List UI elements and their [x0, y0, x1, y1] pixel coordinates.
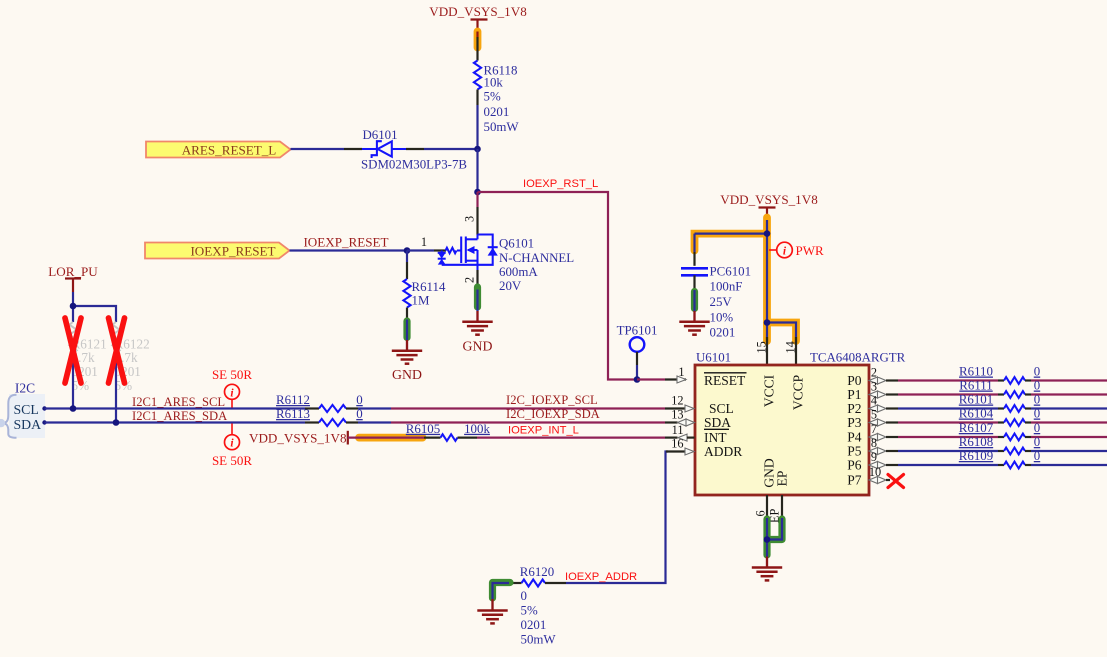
resistor R6109 [959, 449, 1040, 468]
wire IOEXP_ADDR [566, 452, 686, 584]
wire [290, 249, 408, 251]
svg-text:i: i [230, 387, 234, 399]
wire [898, 379, 998, 381]
svg-text:U6101: U6101 [696, 351, 731, 365]
pin 3 P1 [847, 380, 898, 403]
pin 1 RESET [677, 365, 747, 388]
wire (pullup top) [73, 292, 116, 322]
svg-text:2: 2 [463, 277, 477, 283]
pin 10 P7 [847, 465, 890, 488]
svg-text:RESET: RESET [704, 373, 746, 388]
svg-text:TCA6408ARGTR: TCA6408ARGTR [810, 351, 906, 365]
wire [898, 407, 998, 409]
svg-text:R6111: R6111 [959, 379, 992, 393]
svg-text:0201: 0201 [521, 618, 547, 632]
pin 11 INT [672, 423, 728, 445]
wire [1031, 436, 1107, 438]
pin 12 SCL [671, 394, 734, 416]
ground (Q6101 source) [462, 311, 492, 354]
pin 16 ADDR [671, 437, 742, 459]
svg-text:SCL: SCL [14, 402, 39, 417]
wire I2C1_ARES_SDA [45, 421, 320, 423]
svg-text:R6107: R6107 [959, 421, 994, 435]
svg-text:SDM02M30LP3-7B: SDM02M30LP3-7B [361, 158, 467, 172]
svg-text:ADDR: ADDR [704, 444, 742, 459]
pin 14 VCCP [783, 341, 805, 410]
capacitor PC6101 [681, 252, 751, 339]
junction node [474, 146, 481, 153]
pin 13 SDA [671, 408, 731, 430]
wire [1031, 393, 1107, 395]
svg-text:5%: 5% [521, 604, 538, 618]
svg-text:IOEXP_RESET: IOEXP_RESET [303, 235, 388, 250]
directive SE 50R (top) [212, 367, 252, 408]
svg-text:6: 6 [754, 510, 768, 516]
wire [291, 148, 363, 150]
svg-text:VCCI: VCCI [762, 374, 777, 407]
svg-text:TP6101: TP6101 [617, 324, 658, 338]
wire [898, 450, 998, 452]
svg-text:P7: P7 [847, 473, 862, 488]
no-fit cross (R6121) [65, 318, 81, 383]
svg-text:50mW: 50mW [484, 120, 520, 134]
svg-text:SE 50R: SE 50R [212, 367, 252, 382]
pin 5 P3 [847, 408, 898, 431]
svg-text:R6110: R6110 [959, 365, 993, 379]
wire I2C_IOEXP_SCL [358, 407, 686, 409]
wire IOEXP_INT_L [477, 437, 678, 439]
pin 7 P4 [847, 422, 898, 445]
wire (orange highlighted) [348, 434, 441, 442]
svg-text:0: 0 [1034, 365, 1040, 379]
svg-text:0: 0 [356, 393, 362, 407]
pin 6 GND [754, 458, 777, 516]
pin EP [768, 471, 790, 523]
svg-text:EP: EP [775, 471, 790, 487]
svg-text:P4: P4 [847, 430, 862, 445]
wire [406, 148, 478, 150]
svg-text:3: 3 [463, 216, 477, 222]
svg-text:IOEXP_RESET: IOEXP_RESET [190, 244, 275, 259]
wire [72, 353, 74, 409]
svg-text:I2C1_ARES_SCL: I2C1_ARES_SCL [132, 395, 225, 409]
resistor R6110 [959, 365, 1040, 384]
svg-text:0: 0 [1034, 421, 1040, 435]
junction node [764, 319, 771, 326]
svg-text:11: 11 [672, 423, 684, 437]
svg-text:IOEXP_ADDR: IOEXP_ADDR [565, 571, 637, 583]
svg-text:GND: GND [463, 339, 493, 354]
resistor R6114 [403, 251, 446, 308]
svg-text:0201: 0201 [484, 105, 510, 119]
resistor R6105 [406, 422, 491, 441]
svg-text:5%: 5% [484, 90, 501, 104]
svg-text:SDA: SDA [14, 417, 42, 432]
svg-text:20V: 20V [499, 279, 522, 293]
svg-text:R6108: R6108 [959, 435, 993, 449]
svg-text:0: 0 [521, 589, 527, 603]
wire (GND/EP pins, green highlight) [767, 495, 782, 567]
svg-text:I2C_IOEXP_SDA: I2C_IOEXP_SDA [506, 407, 600, 421]
wire (orange highlighted VDD net at U6101) [695, 218, 797, 366]
svg-text:PWR: PWR [796, 243, 825, 258]
IC U6101 TCA6408ARGTR body [695, 351, 906, 496]
resistor R6111 [959, 379, 1040, 398]
svg-text:VCCP: VCCP [791, 375, 806, 410]
testpoint TP6101 [617, 324, 658, 380]
svg-text:R6101: R6101 [959, 393, 993, 407]
svg-text:1M: 1M [412, 294, 430, 308]
svg-text:LOR_PU: LOR_PU [48, 264, 98, 279]
wire (source to gnd, green highlight) [476, 270, 478, 322]
svg-text:I2C_IOEXP_SCL: I2C_IOEXP_SCL [506, 393, 598, 407]
wire [898, 464, 998, 466]
svg-text:P3: P3 [847, 415, 862, 430]
junction node [113, 419, 120, 426]
svg-text:ARES_RESET_L: ARES_RESET_L [182, 143, 277, 158]
svg-text:10k: 10k [484, 75, 504, 89]
wire [476, 90, 478, 150]
svg-text:SE 50R: SE 50R [212, 453, 252, 468]
svg-text:50mW: 50mW [521, 633, 557, 647]
svg-text:0: 0 [1034, 435, 1040, 449]
resistor R6112 [276, 393, 363, 412]
svg-text:P6: P6 [847, 458, 862, 473]
svg-text:14: 14 [783, 341, 797, 353]
resistor R6101 [959, 393, 1040, 412]
svg-text:Q6101: Q6101 [499, 237, 534, 251]
svg-text:10%: 10% [710, 310, 734, 324]
svg-text:R6113: R6113 [276, 407, 310, 421]
svg-text:I2C: I2C [15, 381, 35, 396]
ground (EP) [766, 557, 768, 568]
wire [115, 353, 117, 423]
wire [898, 436, 998, 438]
svg-text:IOEXP_RST_L: IOEXP_RST_L [523, 178, 598, 190]
ground (PC6101) [693, 311, 695, 322]
resistor R6121 (not fitted) [69, 322, 106, 393]
diode D6101 [361, 128, 467, 172]
directive SE 50R (bottom) [212, 424, 252, 469]
resistor R6108 [959, 435, 1040, 454]
pin 4 P2 [847, 394, 898, 417]
directive PWR [769, 242, 824, 258]
wire [1031, 450, 1107, 452]
svg-text:R6104: R6104 [959, 407, 994, 421]
svg-text:0: 0 [1034, 449, 1040, 463]
pin 15 VCCI [754, 341, 776, 407]
wire [1031, 379, 1107, 381]
port IOEXP_RESET [145, 243, 290, 259]
svg-text:i: i [230, 438, 234, 450]
junction node [70, 303, 77, 310]
wire (PC6101 to gnd, green highlight) [693, 275, 695, 321]
resistor R6120 [507, 565, 566, 647]
junction node [404, 247, 411, 254]
svg-text:P1: P1 [847, 387, 861, 402]
power port VDD_VSYS_1V8 (U6101) [720, 192, 818, 220]
no ERC marker (P7) [888, 475, 904, 488]
svg-text:600mA: 600mA [499, 265, 538, 279]
wire (orange highlighted VDD net) [474, 32, 482, 61]
resistor R6122 (not fitted) [112, 322, 149, 393]
power port VDD_VSYS_1V8 (R6105) [249, 431, 348, 446]
svg-text:SDA: SDA [704, 415, 731, 430]
wire [1031, 421, 1107, 423]
wire I2C1_ARES_SCL [45, 407, 320, 409]
ground (R6114) [392, 340, 422, 382]
svg-text:12: 12 [671, 394, 683, 408]
svg-text:IOEXP_INT_L: IOEXP_INT_L [508, 425, 579, 437]
port ARES_RESET_L [146, 142, 291, 158]
harness I2C [0, 381, 47, 439]
junction node [474, 189, 481, 196]
wire (to RESET pin) [637, 378, 686, 380]
junction node [70, 405, 77, 412]
svg-text:13: 13 [671, 408, 683, 422]
svg-text:VDD_VSYS_1V8: VDD_VSYS_1V8 [720, 192, 818, 207]
ground (R6120) [491, 599, 493, 611]
svg-text:1: 1 [421, 235, 427, 249]
svg-text:P2: P2 [847, 401, 861, 416]
wire IOEXP_RST_L [478, 192, 638, 380]
svg-text:R6109: R6109 [959, 449, 993, 463]
svg-text:0: 0 [1034, 407, 1040, 421]
svg-text:i: i [783, 246, 787, 258]
junction node [634, 376, 641, 383]
wire (R6120 to gnd, green highlight) [493, 583, 511, 611]
svg-text:16: 16 [671, 437, 683, 451]
svg-text:15: 15 [754, 341, 768, 353]
svg-text:R6114: R6114 [412, 280, 446, 294]
power port LOR_PU [48, 264, 98, 292]
svg-text:GND: GND [392, 367, 422, 382]
pin 9 P6 [847, 450, 898, 473]
svg-text:PC6101: PC6101 [710, 265, 752, 279]
svg-text:SCL: SCL [709, 401, 734, 416]
svg-text:0201: 0201 [710, 325, 736, 339]
wire [1031, 464, 1107, 466]
svg-text:N-CHANNEL: N-CHANNEL [499, 251, 574, 265]
svg-text:VDD_VSYS_1V8: VDD_VSYS_1V8 [249, 431, 347, 446]
wire [898, 421, 998, 423]
svg-text:100nF: 100nF [710, 280, 743, 294]
svg-text:VDD_VSYS_1V8: VDD_VSYS_1V8 [429, 4, 527, 19]
resistor R6104 [959, 407, 1040, 426]
no-fit cross (R6122) [109, 318, 125, 383]
junction node [764, 230, 771, 237]
power port VDD_VSYS_1V8 (top) [429, 4, 527, 38]
svg-text:P0: P0 [847, 373, 862, 388]
resistor R6113 [276, 407, 363, 426]
wire I2C_IOEXP_SDA [358, 421, 678, 423]
resistor R6107 [959, 421, 1040, 440]
transistor Q6101 N-CHANNEL MOSFET [421, 216, 574, 293]
junction node [764, 536, 771, 543]
svg-text:0: 0 [1034, 379, 1040, 393]
svg-text:INT: INT [704, 430, 727, 445]
svg-text:0: 0 [1034, 393, 1040, 407]
wire [476, 149, 478, 192]
pin 8 P5 [847, 436, 898, 459]
wire [898, 393, 998, 395]
wire (gate) [407, 249, 446, 251]
wire (R6114 to gnd, green highlight) [406, 308, 408, 351]
wire (drain) [476, 192, 478, 235]
wire [1031, 407, 1107, 409]
resistor R6118 [474, 61, 520, 135]
svg-text:P5: P5 [847, 444, 862, 459]
pin 2 P0 [847, 366, 898, 389]
svg-text:100k: 100k [464, 422, 490, 436]
svg-text:R6112: R6112 [276, 393, 310, 407]
svg-text:I2C1_ARES_SDA: I2C1_ARES_SDA [132, 409, 227, 423]
svg-text:25V: 25V [710, 295, 733, 309]
svg-text:R6120: R6120 [520, 565, 554, 579]
svg-text:R6105: R6105 [406, 422, 440, 436]
